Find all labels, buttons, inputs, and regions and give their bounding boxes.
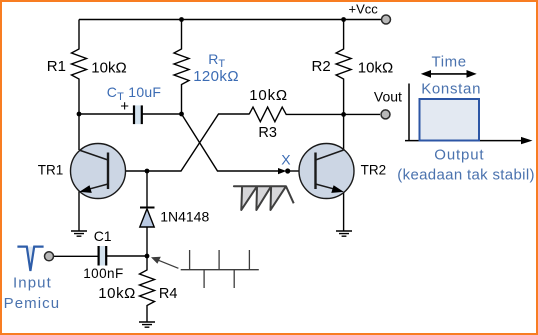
svg-text:R3: R3	[258, 125, 277, 141]
svg-text:1N4148: 1N4148	[160, 208, 209, 224]
svg-text:10kΩ: 10kΩ	[358, 60, 393, 77]
svg-text:Vout: Vout	[374, 88, 402, 104]
svg-text:R2: R2	[312, 58, 331, 75]
svg-text:R4: R4	[159, 286, 178, 302]
svg-text:Input: Input	[13, 274, 52, 291]
svg-text:Pemicu: Pemicu	[4, 295, 61, 312]
svg-text:C1: C1	[94, 228, 112, 244]
svg-text:100nF: 100nF	[83, 266, 124, 281]
svg-text:TR2: TR2	[361, 163, 387, 178]
svg-text:10kΩ: 10kΩ	[249, 87, 288, 104]
svg-text:X: X	[281, 152, 291, 168]
svg-text:CT 10uF: CT 10uF	[107, 84, 161, 103]
svg-text:10kΩ: 10kΩ	[91, 59, 126, 76]
svg-text:TR1: TR1	[38, 163, 64, 178]
svg-text:R1: R1	[47, 58, 66, 75]
svg-text:120kΩ: 120kΩ	[193, 68, 239, 85]
svg-text:10kΩ: 10kΩ	[98, 285, 136, 302]
svg-text:(keadaan tak stabil): (keadaan tak stabil)	[397, 167, 535, 184]
svg-text:Time: Time	[432, 53, 467, 70]
svg-text:+Vcc: +Vcc	[349, 2, 379, 17]
svg-text:Output: Output	[434, 147, 484, 164]
svg-text:Konstan: Konstan	[421, 81, 481, 98]
